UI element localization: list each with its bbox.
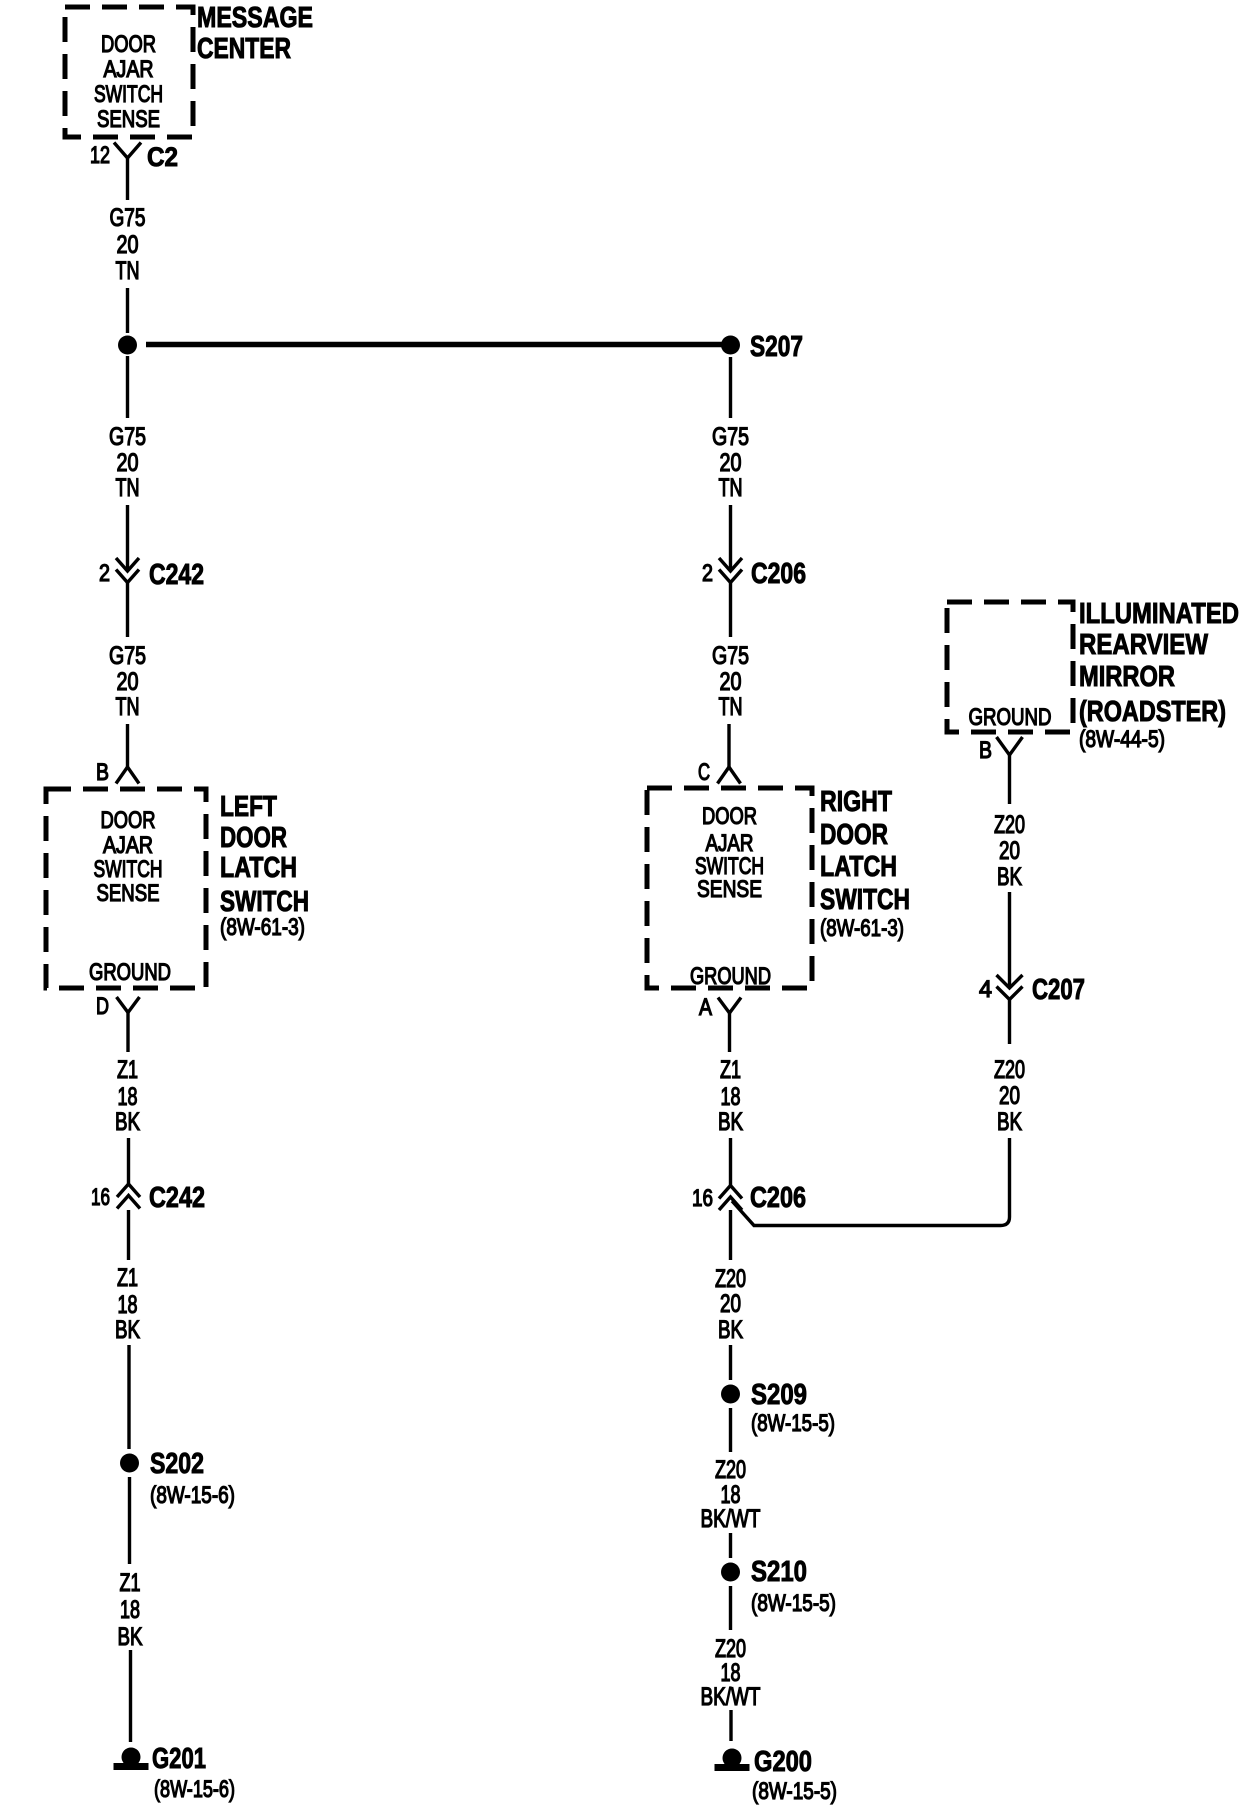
svg-text:Z1: Z1 bbox=[117, 1264, 138, 1292]
wire to C242 bbox=[126, 505, 129, 571]
svg-text:(8W-15-5): (8W-15-5) bbox=[751, 1410, 835, 1437]
svg-text:G201: G201 bbox=[152, 1743, 206, 1775]
splice S207 dot bbox=[721, 336, 740, 355]
splice S210 dot bbox=[721, 1563, 740, 1582]
svg-text:2: 2 bbox=[702, 560, 713, 587]
connector C2 (fork) bbox=[114, 143, 141, 159]
svg-text:DOOR: DOOR bbox=[820, 819, 888, 851]
connector C242 pin 2 bbox=[116, 558, 139, 583]
wire G75 from C2 bbox=[126, 158, 129, 200]
svg-text:BK: BK bbox=[997, 863, 1022, 891]
svg-text:BK: BK bbox=[118, 1623, 143, 1651]
svg-text:G75: G75 bbox=[109, 423, 146, 451]
svg-text:LATCH: LATCH bbox=[820, 851, 897, 883]
svg-text:S210: S210 bbox=[751, 1556, 807, 1588]
svg-text:18: 18 bbox=[120, 1596, 140, 1624]
svg-text:Z20: Z20 bbox=[994, 811, 1025, 839]
svg-text:REARVIEW: REARVIEW bbox=[1079, 629, 1209, 661]
svg-text:A: A bbox=[699, 994, 712, 1021]
svg-text:18: 18 bbox=[721, 1083, 741, 1111]
svg-text:S202: S202 bbox=[150, 1448, 204, 1480]
wire to C207 bbox=[1008, 892, 1011, 988]
wire to left switch bbox=[126, 724, 129, 767]
wire below S202 bbox=[128, 1477, 131, 1564]
illuminated rearview mirror box bbox=[947, 602, 1073, 732]
svg-text:DOOR: DOOR bbox=[101, 31, 156, 58]
splice S209 dot bbox=[721, 1385, 740, 1404]
svg-text:G200: G200 bbox=[754, 1746, 812, 1778]
svg-text:TN: TN bbox=[116, 693, 140, 721]
svg-text:C206: C206 bbox=[750, 1182, 806, 1214]
svg-text:BK: BK bbox=[997, 1108, 1022, 1136]
svg-text:20: 20 bbox=[117, 668, 139, 696]
svg-text:Z20: Z20 bbox=[994, 1056, 1025, 1084]
svg-text:Z1: Z1 bbox=[720, 1056, 741, 1084]
wire below C242 bbox=[126, 583, 129, 638]
svg-text:GROUND: GROUND bbox=[969, 704, 1052, 731]
wire to right switch bbox=[727, 724, 730, 767]
connector pin D fork bbox=[117, 997, 140, 1013]
connector pin B fork (mirror) bbox=[997, 737, 1023, 755]
svg-text:TN: TN bbox=[116, 474, 140, 502]
svg-text:CENTER: CENTER bbox=[197, 33, 291, 65]
svg-text:ILLUMINATED: ILLUMINATED bbox=[1079, 598, 1239, 630]
svg-text:(ROADSTER): (ROADSTER) bbox=[1079, 696, 1226, 728]
left door latch switch box bbox=[46, 789, 206, 988]
connector pin B fork bbox=[116, 767, 139, 784]
connector C207 pin 4 bbox=[997, 975, 1023, 1000]
svg-text:GROUND: GROUND bbox=[89, 959, 171, 986]
svg-text:16: 16 bbox=[692, 1185, 713, 1212]
svg-text:BK: BK bbox=[115, 1108, 140, 1136]
svg-text:GROUND: GROUND bbox=[690, 963, 771, 990]
connector pin C fork bbox=[718, 767, 741, 784]
svg-text:SWITCH: SWITCH bbox=[820, 884, 910, 916]
svg-text:(8W-15-5): (8W-15-5) bbox=[752, 1778, 837, 1805]
svg-text:Z20: Z20 bbox=[715, 1456, 746, 1484]
svg-text:(8W-15-5): (8W-15-5) bbox=[751, 1590, 836, 1617]
svg-text:B: B bbox=[979, 737, 992, 764]
wire below C206 bbox=[729, 583, 732, 638]
wire below S207 bbox=[729, 357, 732, 418]
svg-text:G75: G75 bbox=[712, 642, 749, 670]
svg-text:TN: TN bbox=[719, 693, 743, 721]
svg-text:BK/WT: BK/WT bbox=[701, 1505, 761, 1533]
svg-text:(8W-61-3): (8W-61-3) bbox=[820, 915, 904, 942]
svg-text:SWITCH: SWITCH bbox=[94, 856, 163, 883]
svg-text:SENSE: SENSE bbox=[697, 876, 762, 903]
svg-text:18: 18 bbox=[118, 1083, 138, 1111]
wire to C206 bbox=[729, 505, 732, 571]
svg-text:DOOR: DOOR bbox=[220, 822, 287, 854]
svg-text:RIGHT: RIGHT bbox=[820, 786, 892, 818]
svg-text:Z20: Z20 bbox=[715, 1265, 746, 1293]
splice junction dot bbox=[118, 336, 137, 355]
svg-text:C242: C242 bbox=[149, 1182, 205, 1214]
svg-text:S209: S209 bbox=[751, 1379, 807, 1411]
svg-text:MIRROR: MIRROR bbox=[1079, 661, 1175, 693]
svg-text:D: D bbox=[96, 993, 109, 1020]
svg-text:20: 20 bbox=[999, 1082, 1020, 1110]
wire below C207 bbox=[1008, 1000, 1011, 1045]
svg-text:G75: G75 bbox=[109, 642, 146, 670]
wire to S209 bbox=[729, 1345, 732, 1380]
wire to splice S207 bbox=[126, 288, 129, 333]
svg-text:C: C bbox=[698, 759, 710, 786]
svg-text:Z1: Z1 bbox=[117, 1056, 138, 1084]
svg-text:2: 2 bbox=[99, 560, 110, 587]
connector C242 pin 16 bbox=[117, 1184, 140, 1209]
wire to G201 bbox=[129, 1650, 132, 1742]
wire from C207 to C206 splice (corner) bbox=[732, 1138, 1010, 1226]
svg-text:C206: C206 bbox=[751, 558, 806, 590]
svg-text:BK/WT: BK/WT bbox=[701, 1683, 761, 1711]
svg-text:12: 12 bbox=[90, 142, 110, 169]
svg-text:LATCH: LATCH bbox=[220, 852, 297, 884]
svg-text:BK: BK bbox=[718, 1108, 743, 1136]
wire Z1 below left switch bbox=[126, 1013, 129, 1053]
svg-text:AJAR: AJAR bbox=[104, 56, 154, 83]
wire to C242-16 bbox=[127, 1138, 130, 1184]
svg-text:TN: TN bbox=[116, 257, 140, 285]
svg-text:(8W-61-3): (8W-61-3) bbox=[220, 914, 305, 941]
message center box (door ajar switch sense) bbox=[65, 7, 193, 137]
svg-text:SENSE: SENSE bbox=[97, 106, 160, 133]
svg-text:B: B bbox=[96, 759, 109, 786]
svg-text:(8W-15-6): (8W-15-6) bbox=[150, 1482, 235, 1509]
svg-text:4: 4 bbox=[979, 976, 992, 1003]
wire to G200 bbox=[729, 1710, 732, 1741]
svg-text:C242: C242 bbox=[149, 559, 204, 591]
splice S202 dot bbox=[120, 1454, 139, 1473]
wire to S210 bbox=[729, 1533, 732, 1558]
svg-text:DOOR: DOOR bbox=[702, 803, 757, 830]
svg-text:(8W-15-6): (8W-15-6) bbox=[154, 1776, 235, 1803]
svg-text:C2: C2 bbox=[147, 142, 178, 172]
svg-text:18: 18 bbox=[118, 1291, 138, 1319]
svg-text:16: 16 bbox=[91, 1184, 110, 1211]
svg-text:TN: TN bbox=[719, 474, 743, 502]
wire below junction bbox=[126, 356, 129, 418]
right door latch switch box bbox=[647, 788, 812, 988]
wire below S210 bbox=[729, 1586, 732, 1630]
ground G201 symbol bbox=[114, 1748, 149, 1771]
connector C206 pin 2 bbox=[719, 558, 742, 583]
svg-text:SWITCH: SWITCH bbox=[94, 81, 163, 108]
svg-text:G75: G75 bbox=[110, 204, 146, 232]
svg-text:MESSAGE: MESSAGE bbox=[197, 2, 313, 34]
svg-text:20: 20 bbox=[720, 449, 742, 477]
ground G200 symbol bbox=[715, 1749, 750, 1772]
svg-text:BK: BK bbox=[718, 1316, 743, 1344]
wire to C206-16 bbox=[729, 1138, 732, 1185]
svg-text:BK: BK bbox=[115, 1316, 140, 1344]
connector C206 pin 16 bbox=[719, 1186, 742, 1211]
wire Z1 below right switch bbox=[728, 1013, 731, 1052]
wire below C242-16 bbox=[127, 1210, 130, 1260]
svg-text:LEFT: LEFT bbox=[220, 791, 277, 823]
svg-text:20: 20 bbox=[117, 449, 139, 477]
wire S207 horizontal bbox=[146, 342, 722, 348]
svg-text:SENSE: SENSE bbox=[97, 880, 160, 907]
svg-text:S207: S207 bbox=[750, 331, 803, 363]
svg-text:20: 20 bbox=[720, 668, 742, 696]
svg-text:(8W-44-5): (8W-44-5) bbox=[1079, 726, 1165, 753]
svg-text:20: 20 bbox=[720, 1290, 741, 1318]
svg-text:G75: G75 bbox=[712, 423, 749, 451]
svg-text:C207: C207 bbox=[1032, 974, 1085, 1006]
svg-text:Z1: Z1 bbox=[120, 1569, 141, 1597]
svg-text:DOOR: DOOR bbox=[101, 807, 156, 834]
wire below C206-16 bbox=[729, 1210, 732, 1260]
svg-text:20: 20 bbox=[999, 837, 1020, 865]
wire below S209 bbox=[729, 1408, 732, 1452]
svg-text:AJAR: AJAR bbox=[103, 832, 153, 859]
connector pin A fork bbox=[718, 998, 741, 1014]
wire to S202 bbox=[127, 1345, 130, 1449]
svg-text:20: 20 bbox=[117, 231, 139, 259]
wire Z20 below mirror bbox=[1008, 755, 1011, 804]
